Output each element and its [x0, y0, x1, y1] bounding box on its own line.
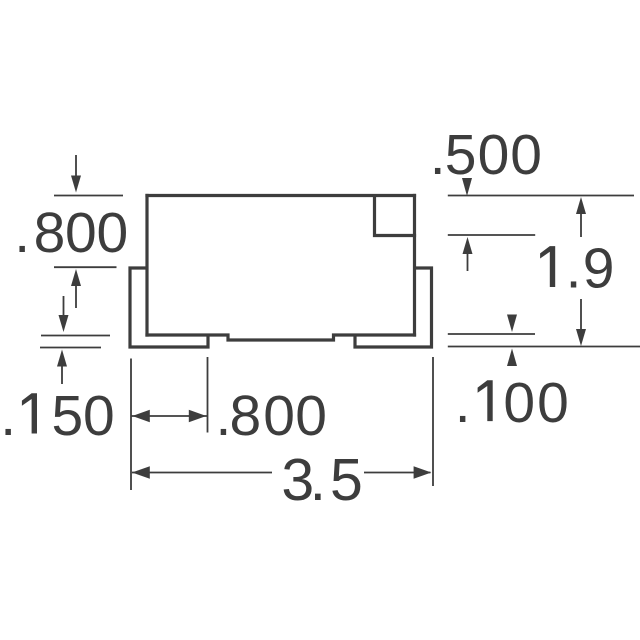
dim .800 left: upper extension line	[54, 195, 123, 197]
dim .800 bottom: right arrowhead	[189, 410, 207, 422]
dim 1.9: bottom shaft	[580, 299, 582, 330]
dim .800 left: down arrowhead	[71, 176, 81, 193]
dim .800 bottom: left extension line	[130, 359, 132, 491]
dim .800 bottom: right extension line	[207, 357, 209, 433]
svg-text:0: 0	[65, 201, 97, 265]
dim 1.9: top shaft	[580, 214, 582, 237]
dim .150: down arrowhead	[59, 315, 69, 332]
dim .800 bottom: left arrowhead	[132, 410, 150, 422]
svg-text:5: 5	[52, 384, 84, 448]
dim .500: lower extension line	[448, 234, 535, 236]
dim .150: lower extension line	[40, 347, 101, 349]
dim 3.5: left arrowhead	[132, 466, 150, 479]
dim .500: up arrowhead	[463, 237, 473, 254]
package body left edge	[145, 194, 148, 337]
dim .500: down arrowhead	[462, 178, 472, 196]
svg-text:.: .	[430, 123, 446, 187]
svg-text:.: .	[14, 201, 30, 265]
dim .800 left: up arrowhead	[71, 269, 81, 286]
right terminal lead	[355, 268, 432, 347]
svg-text:.: .	[310, 447, 326, 513]
svg-text:.: .	[455, 371, 471, 435]
polarity notch square top-right	[375, 194, 417, 236]
dim 1.9: bottom down arrowhead	[576, 329, 586, 346]
svg-text:8: 8	[230, 384, 262, 448]
dim .500: upper extension line	[448, 195, 634, 197]
svg-text:5: 5	[330, 447, 363, 513]
dim .800 left: up arrow shaft	[75, 286, 77, 308]
svg-text:0: 0	[510, 123, 542, 187]
dim 1.9: top up arrowhead	[576, 197, 586, 214]
svg-text:0: 0	[263, 384, 295, 448]
dim .100: up arrowhead	[507, 349, 517, 367]
svg-text:.: .	[566, 237, 582, 301]
dim 3.5: dimension line left segment	[132, 472, 272, 474]
svg-text:0: 0	[537, 371, 569, 435]
svg-text:0: 0	[503, 371, 535, 435]
dim 3.5: dimension line right segment	[364, 472, 431, 474]
dim .150: up arrowhead	[57, 350, 67, 367]
dim .800 left: lower extension line	[54, 266, 117, 268]
svg-text:.: .	[0, 384, 16, 448]
dim .800 bottom: dimension line	[131, 415, 208, 417]
package body top edge	[145, 194, 416, 197]
dim 3.5: right arrowhead	[414, 466, 432, 479]
package body right edge	[413, 194, 416, 337]
left terminal lead	[130, 268, 208, 347]
dim .100: lower extension line	[448, 346, 640, 348]
dim .800 left: down arrow shaft	[75, 155, 77, 177]
dim .100: upper extension line	[448, 333, 535, 335]
svg-text:5: 5	[445, 123, 477, 187]
dim .100: down arrowhead	[507, 315, 517, 333]
svg-text:0: 0	[295, 384, 327, 448]
svg-text:0: 0	[83, 384, 115, 448]
svg-text:8: 8	[34, 201, 66, 265]
svg-text:9: 9	[583, 237, 615, 301]
dim .150: up arrow shaft	[61, 367, 63, 385]
svg-text:0: 0	[97, 201, 129, 265]
dim .150: upper extension line	[41, 335, 110, 337]
package body bottom edge with center standoff	[145, 335, 416, 340]
dim 3.5: right extension line	[432, 357, 434, 486]
dim .150: down arrow shaft	[63, 296, 65, 316]
svg-text:0: 0	[478, 123, 510, 187]
dim .500: up arrow shaft	[467, 254, 469, 271]
dim 1.9: label	[540, 246, 555, 287]
